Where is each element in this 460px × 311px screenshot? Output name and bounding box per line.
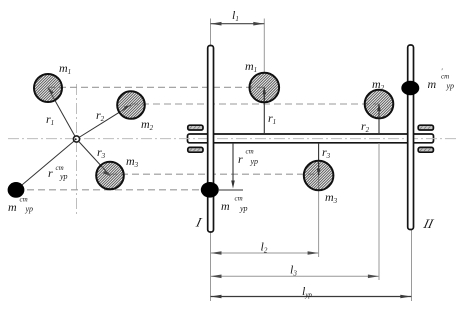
label plane II xyxy=(421,216,435,231)
mass m2 circle (shaft) xyxy=(365,90,394,119)
label r-st-yp (shaft) xyxy=(238,148,258,167)
radius vector r-yp (polar) xyxy=(16,139,77,190)
projection dashed line level myp xyxy=(16,189,210,191)
label l1 xyxy=(232,8,239,23)
label m2 (shaft) xyxy=(372,77,385,92)
left bearing upper block xyxy=(188,125,203,130)
label m-st-yp (polar) xyxy=(8,196,33,215)
dimension l3 xyxy=(211,275,379,279)
label m3 (shaft) xyxy=(325,190,338,205)
dimension lyp xyxy=(211,295,412,299)
label r1 (shaft) xyxy=(268,111,276,126)
projection dashed line level m1 xyxy=(48,86,264,88)
svg-text:ур: ур xyxy=(239,204,247,213)
radius line r3 (shaft) xyxy=(317,143,321,176)
label r3 (polar) xyxy=(97,145,106,160)
mass m3 circle (polar) xyxy=(96,162,124,190)
shaft xyxy=(188,134,434,143)
shaft axis centerline xyxy=(8,138,457,140)
svg-text:ур: ур xyxy=(25,205,33,214)
svg-text:m: m xyxy=(221,199,230,213)
label m-prime-st-yp (plane II) xyxy=(428,68,454,92)
svg-text:ст: ст xyxy=(20,196,28,204)
radius vector r1 (polar) xyxy=(48,88,77,139)
extension line below m3 xyxy=(318,176,320,257)
mass m1 circle (polar) xyxy=(34,74,62,102)
svg-text:ст: ст xyxy=(235,195,243,203)
extension line above mass m1 xyxy=(263,19,265,74)
label m1 (shaft) xyxy=(245,59,257,74)
svg-text:ур: ур xyxy=(250,157,258,166)
correction plane I xyxy=(208,46,214,233)
projection dashed line level m3 xyxy=(110,173,319,175)
label r1 (polar) xyxy=(46,112,54,127)
right bearing upper block xyxy=(418,125,433,130)
svg-text:ур: ур xyxy=(59,172,67,181)
label m1 (polar) xyxy=(59,61,71,76)
mass m2 circle (polar) xyxy=(117,91,145,119)
counterweight mass myp (polar, filled) xyxy=(8,182,25,198)
radius line r2 (shaft) xyxy=(377,104,381,134)
dimension l2 xyxy=(211,251,319,255)
label m2 (polar) xyxy=(141,117,154,132)
svg-text:m: m xyxy=(428,77,437,91)
svg-text:ст: ст xyxy=(246,148,254,156)
label l3 xyxy=(290,263,297,278)
vertical centerline of polar diagram xyxy=(76,84,78,216)
counterweight on plane II (filled) xyxy=(401,81,419,96)
label r-st-yp (polar) xyxy=(48,164,67,181)
center node O xyxy=(73,136,79,142)
svg-text:r: r xyxy=(48,166,53,180)
left bearing lower block xyxy=(188,147,203,152)
correction plane II xyxy=(408,45,414,230)
svg-text:m: m xyxy=(8,200,17,214)
svg-text:r: r xyxy=(238,152,243,166)
label m-st-yp (plane I) xyxy=(221,195,247,214)
radius line r1 (shaft) xyxy=(263,88,267,135)
svg-text:ур: ур xyxy=(446,82,454,91)
label r2 (polar) xyxy=(96,108,105,123)
extension line below plane II xyxy=(411,230,413,302)
extension line above plane I xyxy=(210,19,212,46)
radius line r-yp with down arrow (shaft) xyxy=(219,143,243,190)
label l2 xyxy=(261,240,268,255)
label plane I xyxy=(194,215,204,230)
mass m3 circle (shaft) xyxy=(304,161,334,191)
mass m1 circle (shaft) xyxy=(249,73,279,103)
label m3 (polar) xyxy=(126,154,139,169)
label r3 (shaft) xyxy=(322,145,331,160)
label lyp xyxy=(302,284,312,299)
counterweight on plane I (filled) xyxy=(201,182,219,198)
extension line below plane I xyxy=(210,233,212,302)
label r2 (shaft) xyxy=(361,119,370,134)
right bearing lower block xyxy=(418,147,433,152)
projection dashed line level m2 xyxy=(131,103,379,105)
extension line below m2 xyxy=(378,143,380,280)
dimension l1 xyxy=(211,22,265,26)
radius vector r2 (polar) xyxy=(77,105,132,139)
svg-text:ст: ст xyxy=(56,164,64,172)
svg-text:ст: ст xyxy=(441,73,449,81)
radius vector r3 (polar) xyxy=(77,139,111,176)
